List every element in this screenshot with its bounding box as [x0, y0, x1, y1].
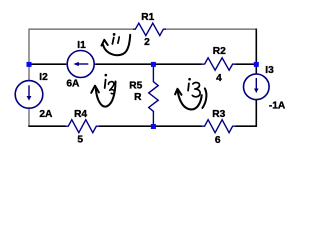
svg-text:6: 6 [215, 135, 221, 146]
wire left vertical upper (gray) [28, 29, 30, 81]
wire right vertical lower [255, 99, 257, 126]
svg-text:R4: R4 [74, 109, 87, 120]
wire right vertical upper [255, 29, 257, 75]
current source I1 [67, 51, 94, 78]
svg-text:R1: R1 [141, 12, 154, 23]
svg-text:4: 4 [216, 73, 222, 84]
current source I2 [15, 81, 43, 109]
wire middle center [96, 63, 202, 65]
svg-text:R3: R3 [212, 109, 225, 120]
svg-text:5: 5 [77, 135, 83, 146]
node A (left middle junction) [27, 62, 32, 67]
mesh current annotation i3 [175, 78, 206, 110]
svg-text:R2: R2 [213, 46, 226, 57]
svg-text:I3: I3 [265, 65, 274, 76]
lead I1 left stub [65, 63, 68, 65]
node D (R5 bottom junction) [151, 124, 156, 129]
wire middle right [235, 63, 256, 65]
wire bottom center [99, 125, 202, 127]
svg-text:2: 2 [144, 37, 150, 48]
svg-text:6A: 6A [66, 78, 80, 89]
resistor R5 [149, 66, 159, 126]
node C (right middle junction) [254, 62, 259, 67]
svg-text:-1A: -1A [269, 100, 286, 111]
wire middle left [29, 63, 66, 65]
wire left vertical lower (gray) [28, 108, 30, 126]
lead I1 right stub [94, 63, 96, 65]
mesh current annotation i1 [102, 33, 131, 55]
resistor R2 [202, 58, 236, 70]
resistor R4 [66, 120, 100, 133]
current source I3 [243, 74, 269, 100]
resistor R1 [133, 23, 166, 35]
svg-text:I2: I2 [39, 72, 48, 83]
svg-text:2A: 2A [39, 109, 53, 120]
wire top rail (gray) [29, 28, 256, 30]
svg-text:R5: R5 [129, 80, 142, 91]
svg-text:I1: I1 [77, 40, 86, 51]
node B (R5 top junction) [151, 62, 156, 67]
wire bottom left [28, 125, 65, 127]
wire bottom right [235, 125, 257, 127]
svg-text:R: R [134, 92, 142, 103]
mesh current annotation i2 [91, 74, 115, 107]
resistor R3 [202, 120, 236, 133]
